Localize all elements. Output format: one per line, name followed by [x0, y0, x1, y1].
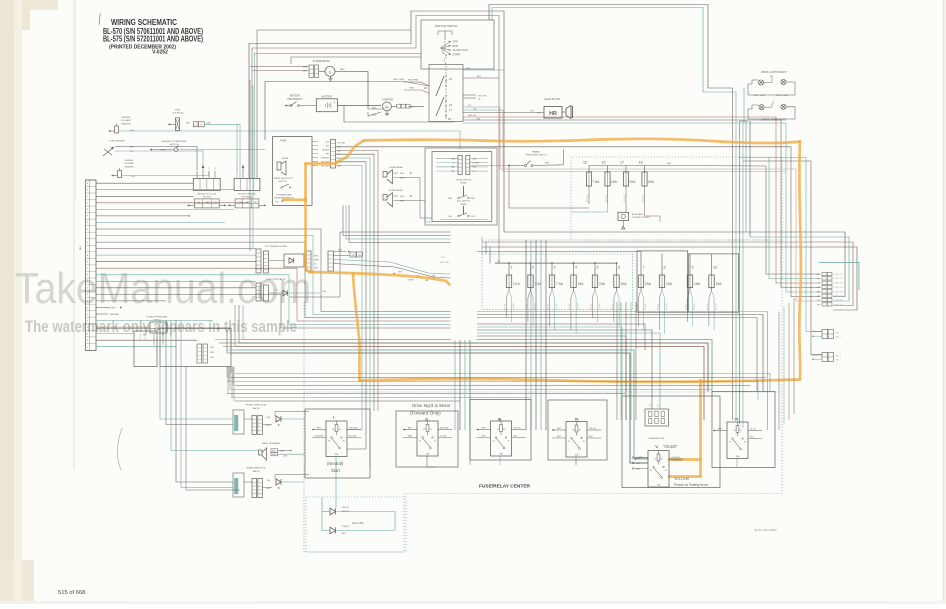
svg-text:WHT: WHT — [280, 451, 285, 453]
svg-text:(Forward Only): (Forward Only) — [410, 411, 441, 416]
svg-text:RED: RED — [400, 178, 405, 180]
svg-text:OFF: OFF — [453, 40, 459, 44]
svg-text:GLOW PLUGS: GLOW PLUGS — [544, 98, 560, 101]
svg-text:18: 18 — [639, 161, 643, 165]
svg-text:10 RED 227: 10 RED 227 — [834, 278, 843, 280]
svg-text:FOOTHORN & HORN: FOOTHORN & HORN — [265, 246, 287, 248]
svg-text:BLK/ORN: BLK/ORN — [440, 428, 449, 430]
svg-text:LGN: LGN — [283, 455, 288, 457]
svg-text:HORN FRONT: HORN FRONT — [389, 190, 404, 192]
svg-text:RED (W): RED (W) — [556, 303, 558, 310]
svg-text:FO: FO — [276, 202, 279, 204]
svg-text:ORN: ORN — [302, 67, 307, 69]
svg-text:RED: RED — [302, 71, 307, 73]
svg-text:LEFT SIDE: LEFT SIDE — [754, 95, 766, 97]
svg-text:86: 86 — [430, 429, 432, 431]
svg-text:BLK (P): BLK (P) — [140, 333, 142, 340]
svg-text:RED/ORN: RED/ORN — [408, 80, 419, 82]
svg-text:85: 85 — [572, 430, 574, 432]
svg-text:15A: 15A — [694, 282, 701, 286]
svg-text:BLK (D): BLK (D) — [505, 304, 507, 310]
svg-text:85: 85 — [423, 429, 425, 431]
svg-text:ENGINE: ENGINE — [122, 117, 131, 119]
svg-text:30: 30 — [729, 442, 731, 444]
svg-text:85: 85 — [332, 429, 334, 431]
svg-text:WHT: WHT — [216, 329, 221, 331]
svg-text:87: 87 — [665, 470, 667, 472]
svg-text:VALVE: VALVE — [253, 470, 260, 473]
svg-text:30: 30 — [419, 441, 421, 443]
svg-text:YEL: YEL — [817, 300, 820, 302]
svg-text:87: 87 — [434, 441, 436, 443]
svg-text:RED (S): RED (S) — [514, 428, 521, 430]
svg-text:RUN: RUN — [453, 44, 459, 48]
svg-text:FUSE/RELAY CENTER: FUSE/RELAY CENTER — [479, 484, 531, 489]
svg-text:E: E — [87, 209, 88, 211]
svg-text:LGN: LGN — [206, 122, 211, 124]
svg-text:5: 5 — [597, 266, 599, 270]
svg-text:LIL (X): LIL (X) — [750, 429, 756, 431]
svg-text:BL-575 (S/N 572011001 AND ABOV: BL-575 (S/N 572011001 AND ABOVE) — [103, 35, 203, 44]
svg-text:B: B — [87, 190, 88, 192]
svg-text:REAR DIRECTION: REAR DIRECTION — [247, 467, 266, 470]
svg-text:16: 16 — [602, 161, 606, 165]
svg-text:87: 87 — [744, 442, 746, 444]
svg-text:LGN: LGN — [476, 118, 481, 120]
svg-text:20A: 20A — [629, 180, 636, 184]
svg-text:REAR: REAR — [461, 182, 467, 185]
svg-text:VI.: VI. — [735, 417, 740, 422]
svg-text:WHT: WHT — [314, 260, 319, 262]
svg-text:9: 9 — [692, 266, 694, 270]
svg-text:34-01-NOV-0502: 34-01-NOV-0502 — [754, 528, 777, 532]
svg-text:YEL (S): YEL (S) — [589, 428, 596, 430]
svg-text:BLK (P): BLK (P) — [145, 333, 147, 340]
svg-text:WIRING SCHEMATIC: WIRING SCHEMATIC — [111, 17, 177, 27]
svg-text:IV.: IV. — [575, 417, 580, 422]
svg-text:10 RED 230: 10 RED 230 — [834, 291, 843, 293]
svg-text:FRONT DIRECTION: FRONT DIRECTION — [246, 405, 267, 407]
svg-text:BLK (D): BLK (D) — [526, 304, 528, 310]
svg-text:DIRECTION VALVE: DIRECTION VALVE — [266, 278, 286, 281]
svg-text:LT.GRN: LT.GRN — [407, 280, 414, 282]
svg-text:15A: 15A — [578, 282, 585, 286]
svg-text:RED (ORN): RED (ORN) — [393, 79, 404, 81]
svg-text:RED (W): RED (W) — [624, 195, 626, 202]
svg-text:BLK (D): BLK (D) — [686, 304, 688, 310]
svg-text:YEL/ORN: YEL/ORN — [349, 428, 358, 430]
svg-text:RED (W): RED (W) — [645, 303, 647, 310]
svg-text:7.5A: 7.5A — [592, 180, 600, 184]
svg-text:WHT/BLK: WHT/BLK — [321, 158, 330, 160]
svg-text:I.: I. — [333, 415, 335, 420]
svg-text:BRAKE: BRAKE — [532, 151, 540, 154]
svg-text:RED (W): RED (W) — [606, 195, 608, 202]
svg-text:VALVE: VALVE — [253, 407, 260, 410]
svg-text:86: 86 — [339, 429, 341, 431]
svg-text:YEL: YEL — [254, 202, 257, 204]
svg-text:LGN: LGN — [161, 150, 166, 152]
svg-text:SOLENOID: SOLENOID — [241, 197, 253, 199]
svg-text:ENGINE: ENGINE — [125, 160, 134, 162]
svg-text:SENDER: SENDER — [124, 166, 134, 168]
svg-text:RED (W): RED (W) — [643, 195, 645, 202]
svg-text:PLUGS: PLUGS — [203, 197, 211, 199]
svg-text:10 RED 232: 10 RED 232 — [834, 300, 843, 302]
svg-text:AUXILIARY: AUXILIARY — [632, 213, 644, 216]
svg-text:10 RED 233: 10 RED 233 — [834, 304, 843, 306]
svg-text:WORK LIGHTS REAR: WORK LIGHTS REAR — [762, 119, 786, 122]
svg-text:BACK-UP ALARM: BACK-UP ALARM — [262, 442, 280, 445]
svg-text:RED: RED — [210, 352, 215, 354]
svg-text:RED: RED — [338, 250, 343, 252]
svg-text:SPEED SELECTOR: SPEED SELECTOR — [274, 178, 293, 180]
svg-text:LT.GRN (X): LT.GRN (X) — [671, 460, 682, 462]
svg-text:15A: 15A — [666, 282, 673, 286]
svg-text:M: M — [386, 105, 389, 109]
svg-text:RED (W): RED (W) — [666, 303, 668, 310]
svg-text:BLK: BLK — [477, 76, 482, 78]
svg-text:GL: GL — [200, 125, 202, 127]
svg-text:REAR: REAR — [461, 203, 467, 206]
svg-text:RED: RED — [340, 69, 345, 71]
svg-text:RED: RED — [408, 436, 413, 438]
svg-text:SENSOR: SENSOR — [121, 123, 131, 125]
svg-text:RED (W): RED (W) — [599, 303, 601, 310]
svg-text:BLK: BLK — [410, 107, 415, 109]
svg-text:30: 30 — [424, 86, 428, 90]
svg-text:3rd-4-5C: 3rd-4-5C — [352, 521, 365, 525]
svg-text:85: 85 — [497, 429, 499, 431]
svg-text:G: G — [329, 70, 332, 74]
svg-text:WHT: WHT — [400, 173, 405, 175]
svg-text:Power to Safety lever: Power to Safety lever — [674, 483, 709, 487]
svg-text:T: T — [87, 288, 88, 290]
svg-text:NEUTRAL: NEUTRAL — [440, 261, 450, 264]
svg-text:RED: RED — [400, 201, 405, 203]
svg-text:LGN: LGN — [471, 216, 476, 218]
svg-text:RED (W): RED (W) — [468, 115, 476, 117]
svg-text:DBL (P): DBL (P) — [342, 507, 349, 509]
svg-text:4: 4 — [575, 266, 577, 270]
svg-text:RAC 1: RAC 1 — [836, 332, 841, 335]
svg-text:RESISTOR GLOW: RESISTOR GLOW — [198, 193, 217, 195]
svg-text:V-0252: V-0252 — [152, 50, 168, 56]
svg-text:START: START — [453, 52, 462, 56]
svg-text:BLK (W): BLK (W) — [349, 436, 357, 438]
svg-text:WHT: WHT — [266, 488, 271, 490]
svg-text:GLOW PLUG: GLOW PLUG — [453, 48, 469, 52]
svg-text:RED (W): RED (W) — [578, 303, 580, 310]
svg-text:WORK LIGHTS FRONT: WORK LIGHTS FRONT — [761, 71, 787, 74]
svg-text:FUEL: FUEL — [175, 110, 181, 112]
svg-text:KILL SWITCH: KILL SWITCH — [457, 201, 470, 203]
svg-text:RED: RED — [471, 198, 476, 200]
svg-text:17: 17 — [620, 161, 624, 165]
svg-text:86: 86 — [661, 459, 663, 461]
svg-text:LGN: LGN — [322, 291, 327, 293]
svg-text:15: 15 — [583, 161, 587, 165]
svg-text:87: 87 — [508, 441, 510, 443]
svg-text:RED (W): RED (W) — [587, 195, 589, 202]
svg-text:WHT: WHT — [817, 274, 821, 276]
svg-text:P AIR: P AIR — [280, 140, 286, 143]
svg-text:YEL: YEL — [817, 278, 820, 280]
svg-text:1: 1 — [511, 266, 513, 270]
svg-text:COOLANT: COOLANT — [124, 162, 135, 165]
svg-text:515 of 668: 515 of 668 — [58, 590, 85, 596]
svg-text:RED: RED — [448, 198, 453, 200]
svg-text:OBL: OBL — [425, 280, 429, 282]
svg-text:FORWARD AND: FORWARD AND — [276, 194, 292, 197]
svg-text:PRESSURE SWITCH: PRESSURE SWITCH — [525, 155, 547, 157]
svg-text:WHT: WHT — [398, 272, 403, 274]
svg-text:15A: 15A — [611, 180, 618, 184]
svg-text:F: F — [87, 216, 88, 218]
svg-text:YEL: YEL — [197, 167, 199, 170]
svg-text:7: 7 — [643, 266, 645, 270]
svg-text:15A: 15A — [645, 282, 652, 286]
svg-text:YELLOW: YELLOW — [674, 477, 690, 481]
svg-text:DISCONNECT: DISCONNECT — [287, 99, 303, 101]
svg-text:87: 87 — [583, 441, 585, 443]
svg-text:30: 30 — [493, 441, 495, 443]
svg-text:BLK (D): BLK (D) — [658, 304, 660, 310]
svg-text:20A: 20A — [648, 180, 655, 184]
svg-text:WHT: WHT — [111, 308, 116, 310]
svg-text:B: B — [87, 340, 88, 342]
svg-text:LGN: LGN — [210, 357, 215, 359]
svg-text:BLK (D): BLK (D) — [548, 304, 550, 310]
svg-text:ALTERNATOR: ALTERNATOR — [312, 59, 329, 63]
svg-text:SWITCH: SWITCH — [279, 181, 288, 183]
svg-text:RED (W): RED (W) — [694, 303, 696, 310]
svg-text:86: 86 — [740, 430, 742, 432]
svg-text:86: 86 — [579, 430, 581, 432]
svg-text:BLK (D): BLK (D) — [569, 304, 571, 310]
svg-text:P: P — [87, 268, 88, 270]
svg-text:FUEL SENDER: FUEL SENDER — [109, 141, 125, 143]
svg-text:87: 87 — [343, 441, 345, 443]
svg-text:3: 3 — [554, 266, 556, 270]
svg-text:10 RED 228: 10 RED 228 — [834, 283, 843, 285]
svg-text:+: + — [334, 101, 336, 105]
svg-text:RAC 2: RAC 2 — [836, 336, 841, 339]
svg-text:RED: RED — [667, 163, 672, 165]
svg-text:LGN: LGN — [448, 216, 453, 218]
svg-text:BATTERY: BATTERY — [322, 96, 333, 99]
svg-text:Z: Z — [87, 327, 88, 329]
svg-text:“Clutch”: “Clutch” — [663, 444, 678, 449]
svg-text:BLK/ORN: BLK/ORN — [321, 166, 330, 168]
svg-text:YEL: YEL — [215, 167, 217, 170]
svg-text:SWITCH: SWITCH — [170, 144, 179, 146]
svg-text:WHT: WHT — [266, 425, 271, 427]
svg-text:RAC 4: RAC 4 — [836, 359, 841, 362]
svg-text:STARTER: STARTER — [382, 98, 393, 101]
svg-text:RED: RED — [314, 256, 319, 258]
svg-text:85: 85 — [654, 459, 656, 461]
svg-text:10A: 10A — [599, 282, 606, 286]
svg-text:LGN (P): LGN (P) — [342, 526, 350, 528]
svg-text:10 RED 229: 10 RED 229 — [834, 287, 843, 289]
svg-text:15A: 15A — [716, 282, 723, 286]
svg-text:30: 30 — [650, 470, 652, 472]
svg-text:7.5A: 7.5A — [556, 282, 564, 286]
svg-text:30: 30 — [568, 441, 570, 443]
svg-text:NAT/GAS: NAT/GAS — [110, 313, 119, 316]
svg-text:BLK: BLK — [342, 533, 346, 535]
svg-text:85: 85 — [733, 430, 735, 432]
svg-text:RIGHT SIDE: RIGHT SIDE — [776, 95, 789, 97]
svg-text:IGNITION SWITCH: IGNITION SWITCH — [435, 24, 458, 28]
svg-text:−: − — [320, 104, 322, 108]
svg-text:BLK (D): BLK (D) — [591, 304, 593, 310]
svg-text:10: 10 — [713, 266, 717, 270]
svg-text:6: 6 — [618, 266, 620, 270]
svg-text:15A: 15A — [621, 282, 628, 286]
svg-text:BRN: BRN — [545, 163, 550, 165]
svg-text:(Neutral): (Neutral) — [327, 461, 344, 466]
svg-text:YEL/ORN: YEL/ORN — [337, 143, 346, 145]
svg-text:BATTERY: BATTERY — [290, 95, 301, 98]
svg-text:15 A: 15 A — [513, 282, 521, 286]
svg-text:LGN/ORN: LGN/ORN — [315, 436, 324, 438]
svg-text:BLK: BLK — [186, 122, 191, 124]
svg-text:YEL: YEL — [209, 167, 211, 170]
svg-text:LIL (W): LIL (W) — [440, 436, 446, 438]
svg-text:RED (P): RED (P) — [342, 511, 350, 513]
svg-text:CL: CL — [194, 125, 196, 127]
svg-text:TakeManual.com: TakeManual.com — [15, 264, 311, 313]
svg-text:LGN/ORN: LGN/ORN — [671, 457, 680, 459]
svg-text:8: 8 — [664, 266, 666, 270]
svg-text:WHT: WHT — [400, 196, 405, 198]
svg-text:COOLANT: COOLANT — [121, 119, 132, 122]
svg-text:HORN: HORN — [282, 158, 289, 160]
svg-text:YEL/BLK: YEL/BLK — [322, 150, 330, 152]
svg-text:FLASHING UNIT: FLASHING UNIT — [649, 437, 666, 440]
svg-text:2: 2 — [532, 266, 534, 270]
svg-text:DIODE FOR FUEL: DIODE FOR FUEL — [238, 193, 257, 195]
svg-text:HR: HR — [549, 111, 557, 117]
svg-text:Drive Sig’d to Motor: Drive Sig’d to Motor — [412, 403, 451, 408]
svg-text:S: S — [87, 281, 88, 283]
svg-text:LGN: LGN — [210, 347, 215, 349]
svg-text:10 RED 226: 10 RED 226 — [834, 274, 843, 276]
svg-text:RED: RED — [636, 469, 641, 471]
svg-text:RED: RED — [636, 463, 641, 465]
svg-text:HORN REAR: HORN REAR — [389, 166, 403, 169]
svg-text:BLK (D): BLK (D) — [707, 304, 709, 310]
svg-text:30: 30 — [328, 441, 330, 443]
svg-text:V.: V. — [655, 444, 658, 449]
svg-text:YEL (TR): YEL (TR) — [478, 96, 487, 98]
svg-text:HORN SWITCH: HORN SWITCH — [456, 180, 471, 182]
svg-text:RED (W): RED (W) — [513, 303, 515, 310]
svg-text:ENGINE OIL PRESSURE: ENGINE OIL PRESSURE — [161, 141, 187, 143]
svg-text:RED (W): RED (W) — [716, 303, 718, 310]
svg-text:RED: RED — [409, 88, 414, 90]
svg-text:BLK (D): BLK (D) — [612, 304, 614, 310]
svg-text:SOLENOID: SOLENOID — [172, 113, 184, 115]
svg-text:LIL: LIL — [818, 283, 820, 285]
svg-text:POWER SOCKET: POWER SOCKET — [632, 217, 651, 219]
svg-text:10 RED 231: 10 RED 231 — [834, 296, 843, 298]
svg-text:ST./AUX PRESSURE: ST./AUX PRESSURE — [147, 316, 168, 319]
svg-text:L: L — [87, 248, 88, 250]
svg-text:RAC 3: RAC 3 — [836, 355, 841, 358]
svg-text:86: 86 — [503, 429, 505, 431]
svg-text:RED: RED — [636, 458, 641, 460]
